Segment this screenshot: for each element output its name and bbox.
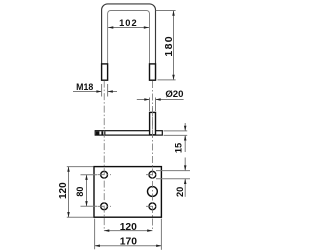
svg-text:120: 120 bbox=[120, 222, 137, 233]
svg-text:15: 15 bbox=[174, 143, 184, 153]
svg-text:80: 80 bbox=[75, 187, 85, 197]
svg-text:20: 20 bbox=[175, 187, 185, 197]
svg-text:Ø20: Ø20 bbox=[165, 89, 183, 100]
svg-text:120: 120 bbox=[58, 182, 69, 199]
svg-text:180: 180 bbox=[163, 35, 175, 57]
svg-text:170: 170 bbox=[120, 237, 137, 248]
svg-text:M18: M18 bbox=[76, 82, 93, 92]
svg-text:102: 102 bbox=[119, 18, 138, 28]
